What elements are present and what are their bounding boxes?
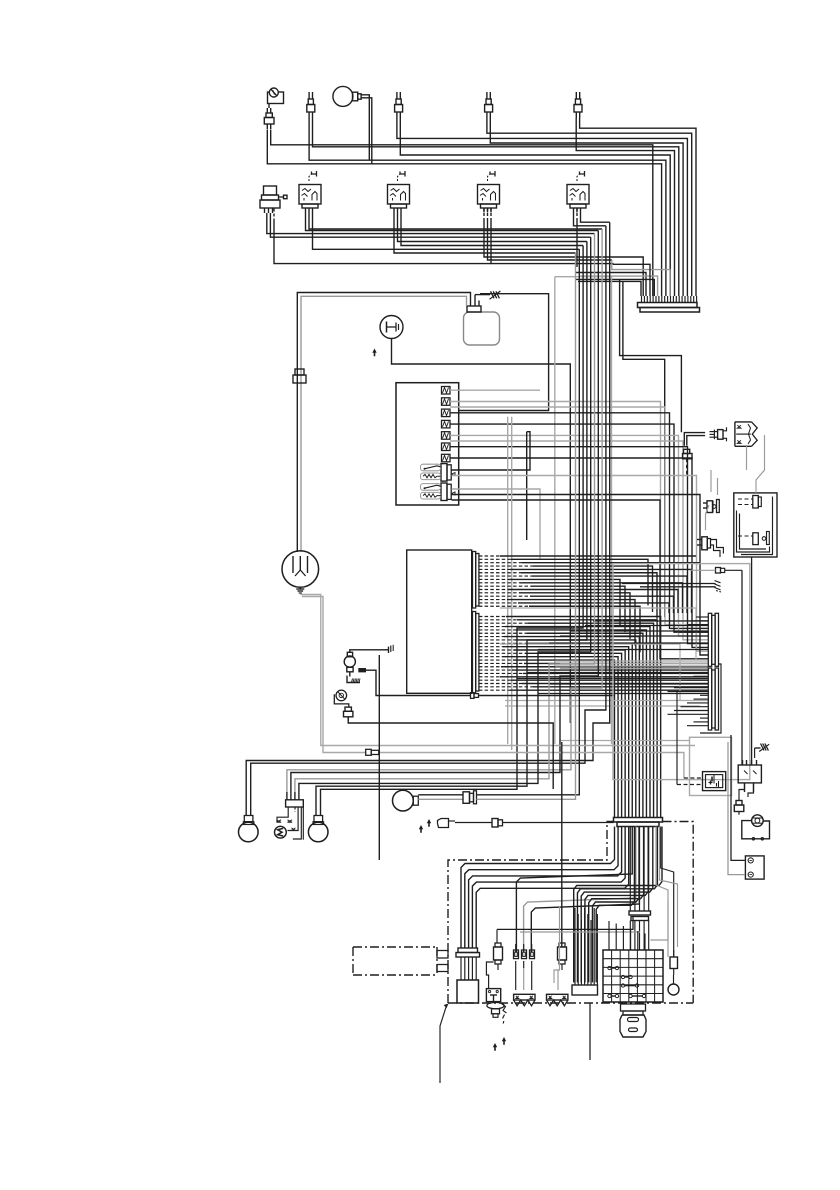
wire	[503, 249, 580, 795]
wire	[555, 277, 612, 744]
ground right	[755, 744, 770, 759]
wire	[300, 595, 695, 746]
wire	[491, 208, 614, 264]
wire	[400, 118, 670, 296]
rear sub-harness box	[734, 435, 777, 557]
wire	[309, 213, 602, 230]
wire	[520, 931, 640, 933]
wire	[309, 118, 666, 296]
wire	[574, 213, 606, 226]
wire	[500, 556, 708, 817]
wire	[511, 417, 513, 750]
wire	[614, 264, 651, 296]
wire	[379, 753, 684, 779]
wire	[630, 827, 648, 951]
wire	[554, 277, 556, 744]
wire	[741, 570, 743, 765]
wire	[401, 213, 583, 246]
wire	[676, 690, 678, 785]
junction grid box	[603, 950, 663, 1002]
wire	[589, 1003, 591, 1060]
wire	[270, 213, 590, 237]
small fuse 3	[530, 944, 535, 968]
wire	[452, 495, 709, 656]
wire	[505, 700, 708, 702]
fuse holder 2	[558, 943, 567, 990]
ground at battery	[490, 291, 501, 299]
wire	[516, 968, 532, 990]
battery positive wire	[478, 291, 480, 294]
wire	[392, 339, 571, 724]
inline connector on diode wire	[471, 693, 615, 699]
ignition coil 1	[299, 171, 321, 213]
oil pressure switch	[334, 690, 349, 707]
wire	[578, 281, 641, 296]
wire	[313, 118, 679, 296]
wire	[297, 293, 470, 553]
wire	[684, 433, 705, 446]
wire	[301, 296, 467, 552]
ignition coil 3	[478, 171, 500, 213]
wire	[717, 478, 719, 495]
wire	[394, 213, 576, 254]
wire	[246, 222, 610, 815]
wire	[700, 664, 721, 733]
wire	[450, 441, 708, 640]
wire	[459, 294, 549, 411]
wire	[365, 95, 370, 160]
connector below oil switch	[344, 707, 353, 721]
position lamp	[393, 790, 464, 811]
wire	[581, 213, 610, 223]
alternator stator box	[457, 980, 479, 1003]
wire	[576, 118, 674, 296]
connector of bank angle sensor	[264, 108, 274, 129]
wire	[505, 705, 700, 707]
mid connector lower	[492, 819, 614, 828]
cam sensor rotor 1	[514, 994, 535, 1006]
spark plug 4	[574, 92, 582, 118]
engine compartment boundary	[448, 822, 693, 1004]
starter magnetic switch	[742, 815, 770, 840]
wire	[674, 970, 679, 975]
wire	[660, 827, 678, 948]
neutral switch	[668, 975, 679, 995]
engine stop switch	[380, 316, 403, 339]
headlight adjuster motor	[275, 826, 287, 838]
multi connector bottom	[572, 908, 598, 995]
ECU connector A	[473, 552, 479, 609]
ignition coil 2	[388, 171, 410, 213]
small fuse 2	[522, 944, 527, 968]
fuse right	[670, 950, 678, 975]
plug lower right	[734, 794, 744, 815]
wire	[687, 436, 705, 446]
small fuse 1	[514, 944, 519, 968]
wire	[620, 279, 682, 432]
gray pigtail	[746, 445, 748, 470]
wire	[452, 500, 709, 659]
ECU connector B	[473, 612, 479, 694]
headlight bulb right	[308, 816, 328, 842]
ECU pin leads	[479, 556, 533, 690]
wire	[751, 557, 753, 765]
adjuster connector	[277, 792, 304, 840]
wire	[461, 742, 662, 982]
switch housing box	[613, 564, 750, 796]
battery 2	[728, 735, 764, 879]
side stand switch	[486, 962, 500, 1002]
leader arrowhead	[444, 1004, 449, 1009]
wire	[487, 118, 692, 296]
diode	[359, 669, 471, 696]
ignition key	[620, 1004, 646, 1037]
wire	[475, 294, 490, 296]
wire	[271, 130, 653, 297]
wire	[609, 921, 645, 950]
engine sub-harness connector	[614, 818, 663, 827]
wire	[576, 208, 578, 267]
ignition switch	[735, 422, 757, 446]
wire	[677, 784, 703, 786]
frame harness connector	[638, 296, 700, 312]
wire	[612, 260, 670, 296]
wire	[507, 417, 509, 744]
wire	[348, 717, 553, 789]
wire	[450, 407, 708, 625]
wire	[580, 118, 696, 296]
wire	[274, 209, 491, 264]
wire	[500, 644, 680, 700]
fuse box	[396, 383, 459, 505]
alternator connector block	[456, 948, 480, 980]
wire	[739, 783, 745, 794]
cam sensor rotor 2	[547, 994, 568, 1006]
wire	[623, 281, 665, 617]
crank position sensor	[260, 186, 287, 213]
wire	[450, 389, 540, 391]
wire	[306, 213, 599, 231]
small arrows	[419, 819, 431, 833]
ground at alternator	[296, 587, 304, 593]
connector on gray wire	[366, 749, 379, 755]
wire	[450, 458, 708, 647]
wire	[450, 435, 708, 636]
wire	[490, 118, 683, 296]
wire	[452, 432, 531, 470]
battery	[464, 295, 500, 345]
alternator	[282, 551, 319, 588]
wire	[484, 208, 643, 296]
wire	[667, 900, 669, 957]
wire	[500, 608, 696, 660]
spark plug 2	[395, 92, 403, 118]
right connector strip B	[708, 668, 718, 730]
ground at starter	[385, 645, 393, 653]
fuse box relay 1	[421, 464, 456, 482]
left engine box	[353, 947, 448, 975]
connector below ignition switch	[683, 449, 693, 476]
ECU	[407, 550, 472, 693]
wire	[710, 470, 712, 492]
wire	[479, 300, 481, 302]
fuse holder 1	[494, 943, 503, 970]
wire	[554, 906, 560, 983]
wire	[440, 1004, 447, 1083]
wire	[378, 655, 380, 860]
wire	[452, 476, 709, 652]
wire	[576, 273, 647, 297]
wire	[526, 432, 528, 540]
wire	[668, 673, 709, 726]
wire	[497, 917, 633, 944]
ground bracket	[347, 672, 360, 683]
wire	[488, 208, 612, 260]
wire	[576, 279, 655, 296]
headlight bulb left	[239, 816, 259, 842]
wire	[452, 489, 541, 560]
ignition coil 4	[567, 171, 589, 213]
wire	[650, 827, 668, 941]
fuse box relay 2	[421, 483, 456, 501]
bank angle sensor	[268, 88, 284, 108]
wire	[678, 617, 708, 632]
right connector strip A	[708, 613, 718, 666]
wire	[302, 597, 366, 753]
seat switch connector	[697, 505, 723, 557]
fuel pump connector pair	[703, 500, 719, 513]
wire	[398, 213, 587, 242]
wire	[450, 424, 708, 632]
wire	[397, 118, 688, 296]
wire	[661, 827, 674, 958]
diode block	[738, 760, 761, 792]
horn	[333, 86, 365, 106]
ignition switch connector	[710, 427, 727, 441]
wire	[517, 621, 708, 694]
wire	[450, 447, 708, 644]
bolt and washer symbol	[487, 1001, 507, 1023]
wire	[684, 777, 703, 779]
wire	[267, 213, 595, 234]
wire	[267, 130, 661, 297]
wire	[748, 783, 754, 797]
turn signal relay	[703, 772, 726, 791]
speed sensor plug	[438, 819, 493, 828]
wire	[503, 253, 576, 799]
main fuses	[442, 387, 451, 462]
small arrows 2	[493, 1037, 506, 1051]
double bar connector	[629, 911, 651, 921]
wire	[560, 740, 690, 742]
position lamp connector	[463, 791, 503, 804]
connector on battery cable	[293, 369, 306, 383]
wire	[365, 98, 372, 164]
arrow mark	[372, 349, 376, 357]
wire	[450, 402, 708, 621]
wire	[313, 213, 580, 250]
spark plug 1	[307, 92, 315, 118]
spark plug 3	[485, 92, 493, 118]
connector on housing box	[690, 568, 742, 574]
wire	[450, 413, 708, 629]
wire	[579, 276, 657, 296]
disconnected stub	[622, 581, 721, 593]
starter motor	[344, 650, 388, 672]
